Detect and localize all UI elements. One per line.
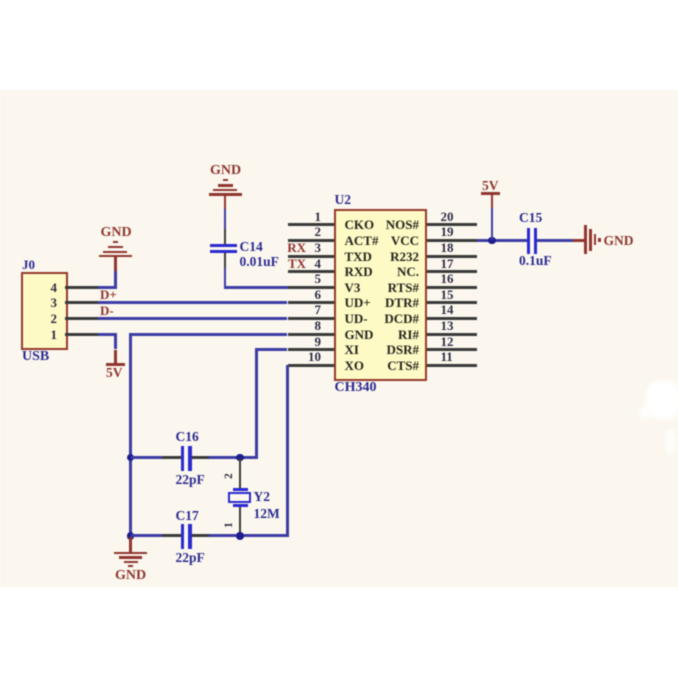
value 22pF C17 [176,551,205,565]
C14 top pin [224,229,227,245]
C14 bottom pin [224,253,227,269]
label GND bottom [115,569,146,583]
pin name XO [345,359,365,372]
C16 right pin [192,456,210,459]
pin name NOS# [386,218,419,231]
value 12M [254,507,280,521]
J0 pin number 2 [51,312,58,325]
C17 left pin [162,534,182,537]
pin number 15 [441,288,454,301]
J0 pin number 1 [51,328,58,341]
pin number 1 [315,210,322,223]
wire D+ [98,301,287,304]
label D+ [100,288,117,301]
U2 pin 19 stub [427,239,477,242]
wire pin4 to gnd [98,286,116,289]
pin name NC. [397,265,419,278]
U2 pin 16 stub [427,286,477,289]
label TX [288,257,306,270]
U2 pin 17 stub [427,270,477,273]
U2 pin 12 stub [427,348,477,351]
pin number 11 [441,350,453,363]
U2 pin 6 stub [288,301,335,304]
wire pin19 to C15 [477,239,528,242]
U2 pin 11 stub [427,364,477,367]
5V bar [106,363,125,366]
pin number 9 [315,335,322,348]
J0 pin2 stub [65,317,98,320]
pin number 18 [441,241,454,254]
junction dot [236,454,243,461]
label CH340 [335,381,377,395]
wire C14 down [224,268,227,289]
gnd stem red [224,195,227,209]
pin number 2 [315,225,322,238]
connector J0 (USB) [21,272,68,351]
pin number 3 [315,241,322,254]
wire gnd to C14 [224,209,227,229]
junction dot [236,532,243,539]
J0 pin number 3 [51,296,58,309]
J0 pin1 stub [65,333,98,336]
junction dot [127,454,134,461]
pin number 14 [441,303,454,316]
C17 right pin [192,534,210,537]
label C15 [519,211,542,225]
wire vertical down [129,334,132,537]
pin number 16 [441,272,454,285]
pin number 12 [441,335,454,348]
wire pin1 [98,333,116,336]
pin name VCC [391,234,419,247]
pin number 10 [308,350,321,363]
U2 pin 5 stub [288,286,335,289]
pin number 17 [441,257,454,270]
label C17 [176,509,199,523]
wire to U2 pin5 [224,286,288,289]
label GND left [101,226,132,240]
U2 pin 1 stub [288,223,335,226]
J0 pin4 stub [65,286,98,289]
pin name TXD [345,250,372,263]
gnd stem red [114,257,117,271]
Y2 bottom plate [233,504,249,506]
U2 pin 20 stub [427,223,477,226]
5V stem red [114,350,117,365]
U2 pin 18 stub [427,255,477,258]
wire up to pin10 [286,365,289,536]
label USB [22,350,49,364]
wire C15 to gnd [537,239,573,242]
wire down to 5V [114,334,117,349]
wire left of C16 [131,456,162,459]
capacitor C16 [181,446,184,471]
U2 pin 7 stub [288,317,335,320]
label C16 [176,430,199,444]
U2 pin 4 stub [288,270,335,273]
5V bar [481,192,500,195]
label 5V top [482,179,499,193]
wire up to pin9 [255,350,258,458]
pin number 8 [315,319,322,332]
pin number 6 [315,288,322,301]
wire C17 to corner [209,534,289,537]
U2 pin 3 stub [288,255,335,258]
pin number 4 [315,257,322,270]
J0 pin3 stub [65,301,98,304]
Y2 pin 1 lead [239,507,242,536]
wire pin9 row [255,348,287,351]
U2 pin 9 stub [288,348,335,351]
capacitor C15 [527,228,530,255]
U2 pin 13 stub [427,333,477,336]
U2 pin 10 stub [288,364,335,367]
label GND right [604,234,634,248]
capacitor C17 [181,524,184,549]
pin name UD+ [345,296,371,309]
label RX [287,241,306,254]
label U2 [335,193,352,207]
label D- [100,304,114,317]
wire D- [98,317,287,320]
pin name XI [345,343,359,356]
pin name R232 [390,250,419,263]
ground symbol (bottom) [114,552,147,554]
pin name RXD [345,265,373,278]
ground symbol (left, above J0) [113,241,118,243]
wire up to 5V [491,208,494,240]
pin name UD- [345,312,368,325]
power ground symbol (right) [584,225,587,254]
pin name RI# [398,328,419,341]
U2 pin 8 stub [288,333,335,336]
U2 pin 2 stub [288,239,335,242]
pin number 20 [441,210,454,223]
wire pin8 row [129,333,287,336]
pin name DTR# [385,296,419,309]
Y2 pin 2 lead [239,458,242,489]
watermark blob [646,381,678,419]
IC U2 CH340 body [334,209,427,381]
5V stem red [491,194,494,209]
wire left of C17 [131,534,162,537]
pin name CTS# [387,359,419,372]
ground symbol (top, above C14) [223,179,228,181]
Y2 pin number 2 [224,469,236,479]
junction dot [488,237,495,244]
wire gnd down [114,271,117,289]
J0 pin number 4 [51,281,58,294]
label C14 [240,240,263,254]
wire C16 to corner [209,456,258,459]
label J0 [22,258,35,271]
pin name ACT# [345,234,379,247]
pin number 13 [441,319,454,332]
pin name DCD# [384,312,419,325]
U2 pin 14 stub [427,317,477,320]
pin name V3 [345,281,361,294]
label Y2 [254,490,271,504]
pin number 5 [315,272,322,285]
pin name RTS# [388,281,419,294]
pin name GND [345,328,374,341]
schematic sheet background [0,90,678,587]
value 22pF [176,473,205,487]
gnd stem red [129,537,132,552]
capacitor C14 [210,244,237,247]
Y2 top plate [233,488,249,490]
gnd lead red [573,239,584,242]
value 0.1uF [519,254,552,268]
pin number 19 [441,225,454,238]
Y2 pin number 1 [224,518,236,528]
pin name CKO [345,218,375,231]
junction dot [127,532,134,539]
label GND top [210,164,241,178]
value 0.01uF [240,255,279,269]
U2 pin 15 stub [427,301,477,304]
pin name DSR# [386,343,419,356]
C16 left pin [162,456,182,459]
label 5V [106,366,123,380]
pin number 7 [315,303,322,316]
